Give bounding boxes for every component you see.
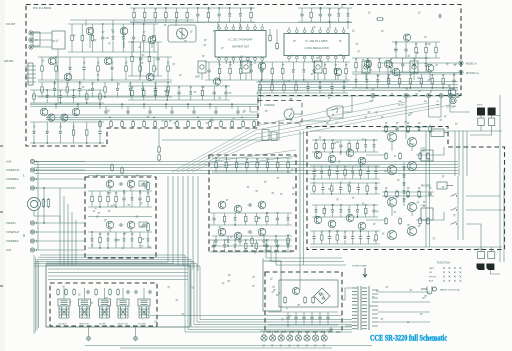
antenna attenuator xyxy=(33,32,40,46)
module feedthrough terminal xyxy=(448,94,452,98)
resistor xyxy=(366,61,369,69)
audio bus wire 5 xyxy=(34,173,458,175)
svg-text:FM ANT: FM ANT xyxy=(6,22,16,26)
wire xyxy=(102,24,104,36)
B+ FM bus wire xyxy=(258,87,458,89)
IF resistor xyxy=(165,120,168,128)
part value label xyxy=(258,218,261,219)
wire xyxy=(54,82,56,88)
wire xyxy=(153,57,155,64)
bus junction xyxy=(121,103,123,105)
part value label xyxy=(356,43,359,44)
junction xyxy=(407,130,408,131)
bus junction xyxy=(165,103,167,105)
wire xyxy=(338,8,340,14)
part value label xyxy=(88,90,91,91)
wire xyxy=(50,120,52,123)
speaker terminal D lug xyxy=(488,252,495,259)
wire xyxy=(356,214,358,218)
part value label xyxy=(262,95,265,96)
wire xyxy=(367,175,369,179)
output transistor xyxy=(407,226,416,235)
wire xyxy=(395,42,397,48)
wire xyxy=(260,330,330,332)
resistor xyxy=(239,67,242,75)
part value label xyxy=(206,122,209,123)
wire xyxy=(287,240,289,245)
part value label xyxy=(455,63,458,64)
speaker terminal C black xyxy=(477,264,485,271)
wire xyxy=(390,69,392,72)
resistor xyxy=(166,89,169,97)
wire xyxy=(327,312,329,316)
wire xyxy=(295,92,297,93)
wiring loop side xyxy=(36,259,38,330)
IF bias cluster top rail xyxy=(256,81,348,83)
tone amp transistor xyxy=(218,228,226,236)
part value label xyxy=(164,90,167,91)
wiring loop side xyxy=(35,257,37,332)
routed signal wire xyxy=(209,156,296,168)
wire xyxy=(268,311,338,313)
wire xyxy=(266,158,268,161)
resistor xyxy=(271,67,274,75)
part value label xyxy=(314,170,317,171)
value label xyxy=(102,32,105,33)
bus junction xyxy=(109,117,110,118)
wire xyxy=(490,270,500,274)
wire xyxy=(313,193,315,194)
junction xyxy=(208,7,209,8)
wire xyxy=(139,201,141,207)
capacitor xyxy=(260,69,263,74)
wire xyxy=(388,85,390,88)
wire xyxy=(366,154,386,156)
resistor xyxy=(66,85,69,93)
resistor xyxy=(304,296,307,304)
resistor xyxy=(415,46,418,54)
part value label xyxy=(311,74,314,75)
part value label xyxy=(339,41,342,42)
wire xyxy=(313,240,315,244)
value label xyxy=(240,65,243,66)
part value label xyxy=(336,199,339,200)
wire xyxy=(154,19,156,22)
wire xyxy=(313,175,315,179)
wire xyxy=(225,158,227,161)
wire xyxy=(310,8,312,11)
IF capacitor xyxy=(104,110,107,115)
wire xyxy=(115,191,117,195)
capacitor xyxy=(401,63,404,68)
part value label xyxy=(406,88,409,89)
part value label xyxy=(412,144,415,145)
wire xyxy=(255,250,257,252)
wire xyxy=(317,73,319,80)
part value label xyxy=(404,121,407,122)
wire xyxy=(131,42,133,55)
wire xyxy=(83,71,85,80)
wire xyxy=(377,84,379,89)
wire xyxy=(313,231,315,235)
wire xyxy=(202,97,204,100)
wire xyxy=(256,169,258,172)
B+ bus wire xyxy=(30,103,258,105)
headphone jack xyxy=(437,182,453,189)
capacitor xyxy=(394,48,397,53)
wire xyxy=(295,320,297,325)
wire xyxy=(340,191,342,194)
terminal label xyxy=(288,345,291,346)
preamp cluster bottom rail xyxy=(88,247,152,249)
junction xyxy=(331,193,332,194)
wire xyxy=(321,166,323,171)
wire xyxy=(46,263,173,265)
part value label xyxy=(264,181,267,182)
wire xyxy=(323,215,325,217)
wire xyxy=(263,331,265,335)
IF transformer can xyxy=(314,61,322,73)
bus tap wire xyxy=(165,104,167,109)
wire xyxy=(208,8,210,11)
value label xyxy=(250,65,253,66)
wire xyxy=(176,120,178,122)
wire xyxy=(480,126,482,132)
speaker relay xyxy=(421,208,433,220)
wire xyxy=(46,99,48,103)
right edge wire xyxy=(499,95,501,262)
diode xyxy=(234,245,237,248)
wire xyxy=(109,229,111,232)
junction xyxy=(324,139,325,140)
resistor xyxy=(147,195,150,203)
wire xyxy=(143,24,145,34)
wire xyxy=(147,243,149,249)
capacitor xyxy=(138,197,141,202)
wire xyxy=(462,176,464,240)
capacitor xyxy=(82,66,85,71)
part value label xyxy=(293,41,296,42)
wire xyxy=(147,191,149,195)
bus junction xyxy=(99,103,101,105)
wire xyxy=(343,59,345,62)
resistor xyxy=(435,46,438,54)
value label xyxy=(415,44,418,45)
tone control section border xyxy=(209,155,296,251)
value label xyxy=(365,205,368,206)
wire xyxy=(46,261,168,263)
wire xyxy=(276,213,278,217)
IC102 pin xyxy=(311,30,314,33)
rotary switch wafer FILTER xyxy=(99,299,111,318)
wire xyxy=(33,90,35,92)
junction xyxy=(385,126,386,127)
IC101 pin xyxy=(239,27,242,30)
svg-text:TAPE MON: TAPE MON xyxy=(79,323,89,326)
wire xyxy=(425,42,427,46)
resistor xyxy=(344,168,347,176)
diode xyxy=(315,210,318,213)
value label xyxy=(115,193,118,194)
wire xyxy=(198,120,200,122)
part value label xyxy=(384,171,387,172)
wire xyxy=(154,82,156,87)
wire xyxy=(375,175,377,179)
diode xyxy=(355,80,358,83)
wire xyxy=(176,19,178,22)
resistor xyxy=(57,288,60,295)
IF resistor xyxy=(198,120,201,128)
wire xyxy=(35,231,85,233)
diode xyxy=(377,80,380,83)
contact mark xyxy=(443,276,445,278)
diode xyxy=(287,218,290,221)
wire xyxy=(287,222,289,226)
resistor xyxy=(321,233,324,241)
wire xyxy=(366,74,368,80)
resistor xyxy=(334,67,337,75)
terminal label xyxy=(306,345,309,346)
junction xyxy=(272,79,273,80)
value label xyxy=(373,205,376,206)
resistor xyxy=(256,161,259,169)
terminal label xyxy=(314,345,317,346)
ceramic filter lead xyxy=(341,5,343,9)
wire xyxy=(352,240,354,244)
wire xyxy=(343,82,345,86)
junction xyxy=(227,245,228,246)
wire xyxy=(86,90,88,92)
signal bus wire xyxy=(46,116,258,118)
wiring loop xyxy=(37,259,352,327)
wire xyxy=(215,236,217,239)
wire xyxy=(413,67,415,72)
svg-text:FM: FM xyxy=(424,101,427,103)
value label xyxy=(323,140,326,141)
junction xyxy=(54,81,55,82)
wire xyxy=(396,130,398,132)
wire xyxy=(277,158,279,161)
svg-text:FILTER: FILTER xyxy=(99,324,106,326)
oscillator top cluster top rail xyxy=(298,7,352,9)
wire xyxy=(178,95,180,100)
stereo lamp xyxy=(450,97,456,103)
wire xyxy=(35,187,85,189)
chassis terminal xyxy=(270,335,276,341)
wire xyxy=(225,86,227,91)
wire xyxy=(81,42,83,52)
amp cluster top rail xyxy=(310,230,380,232)
wire xyxy=(215,106,217,110)
value label xyxy=(99,234,102,235)
wire xyxy=(148,42,150,55)
junction xyxy=(91,231,92,232)
wire xyxy=(254,60,256,64)
filter capacitor xyxy=(294,316,297,321)
wire xyxy=(102,40,104,52)
IC102 pin xyxy=(334,30,337,33)
capacitor xyxy=(265,244,268,249)
junction xyxy=(115,206,116,207)
value label xyxy=(315,140,318,141)
capacitor xyxy=(413,63,416,68)
part value label xyxy=(292,193,295,194)
wire xyxy=(360,177,362,179)
wire xyxy=(395,52,397,58)
wire xyxy=(261,24,263,27)
wire xyxy=(261,62,263,69)
transformer secondary xyxy=(372,290,378,326)
part value label xyxy=(162,120,165,121)
wire xyxy=(321,242,323,244)
value label xyxy=(154,9,157,10)
resistor xyxy=(167,85,170,93)
IC102 PLL MPX xyxy=(284,34,349,56)
wire xyxy=(99,232,101,236)
wire xyxy=(327,59,329,62)
AGC rail wire xyxy=(32,95,455,97)
scan mark xyxy=(0,146,3,286)
driver cluster top rail xyxy=(382,126,434,128)
wire xyxy=(387,68,389,80)
AM IF cluster bottom rail xyxy=(30,102,104,104)
bus wire xyxy=(48,275,188,277)
wire xyxy=(232,60,234,64)
wire xyxy=(251,235,253,238)
wire xyxy=(86,101,88,103)
wire xyxy=(35,161,85,163)
wire xyxy=(288,59,290,62)
wire xyxy=(255,213,257,215)
diode xyxy=(343,86,346,89)
wire xyxy=(117,92,119,97)
filter capacitor xyxy=(302,316,305,321)
wire xyxy=(176,8,178,11)
C-meter dashed box xyxy=(258,101,302,124)
coupling capacitor xyxy=(248,203,253,206)
wire xyxy=(375,231,377,233)
wire xyxy=(115,242,117,248)
contact mark xyxy=(460,271,462,273)
value label xyxy=(133,9,136,10)
svg-text:AUDIO: AUDIO xyxy=(398,104,405,107)
junction xyxy=(365,139,366,140)
junction xyxy=(331,92,332,93)
wire xyxy=(406,40,408,43)
junction xyxy=(99,247,100,248)
diode xyxy=(223,245,226,248)
part value label xyxy=(211,246,214,247)
diode xyxy=(59,131,62,134)
wire xyxy=(425,68,427,73)
wire xyxy=(272,331,274,335)
part value label xyxy=(381,30,384,31)
wire xyxy=(311,27,313,30)
wire xyxy=(348,214,350,218)
input bus wire xyxy=(37,162,39,251)
capacitor xyxy=(276,217,279,222)
junction xyxy=(332,204,333,205)
part value label xyxy=(339,54,342,55)
wire xyxy=(148,63,150,76)
part value label xyxy=(229,92,232,93)
part value label xyxy=(247,186,250,187)
capacitor xyxy=(306,85,309,90)
wire xyxy=(229,8,231,14)
wire xyxy=(46,122,48,131)
part value label xyxy=(375,112,378,113)
wire xyxy=(335,75,337,80)
junction xyxy=(442,87,443,88)
output transistor xyxy=(387,165,396,174)
part value label xyxy=(382,233,385,234)
wire xyxy=(332,205,334,210)
wire xyxy=(327,320,329,325)
resistor xyxy=(245,242,248,250)
wire xyxy=(288,27,290,30)
wire xyxy=(429,125,431,127)
IF resistor xyxy=(231,120,234,128)
part value label xyxy=(204,39,207,40)
capacitor xyxy=(212,217,215,222)
resistor xyxy=(375,233,378,241)
part value label xyxy=(210,119,213,120)
wire xyxy=(73,99,75,103)
speaker switch xyxy=(450,208,456,212)
wire xyxy=(139,73,141,80)
IC101 pin xyxy=(261,27,264,30)
bus junction xyxy=(65,117,66,118)
wire xyxy=(303,74,305,81)
junction xyxy=(287,171,288,172)
IC102 pin xyxy=(319,30,322,33)
output terminal xyxy=(87,337,91,341)
wire xyxy=(155,86,157,89)
power amp section border xyxy=(307,127,505,250)
wire xyxy=(343,90,345,93)
wire xyxy=(167,82,169,85)
terminal label xyxy=(280,345,283,346)
value label xyxy=(324,65,327,66)
wire xyxy=(193,106,195,110)
wire xyxy=(391,207,393,216)
wire xyxy=(411,147,413,151)
bus tap wire xyxy=(209,104,211,109)
wire xyxy=(139,57,141,64)
wire xyxy=(239,18,241,23)
svg-text:FUNCTION: FUNCTION xyxy=(437,262,450,265)
value label xyxy=(377,75,380,76)
value label xyxy=(356,205,359,206)
wire xyxy=(373,149,375,153)
part value label xyxy=(138,47,141,48)
resistor xyxy=(218,67,221,75)
FM antenna terminal xyxy=(29,38,33,42)
AM converter cluster top rail xyxy=(38,56,172,58)
tuning meter xyxy=(284,109,294,120)
wire xyxy=(375,183,377,187)
value label xyxy=(355,59,358,60)
capacitor xyxy=(312,170,315,175)
IF bias cluster bottom rail xyxy=(256,92,348,94)
wire xyxy=(187,120,189,122)
bias diode xyxy=(403,191,406,194)
wire xyxy=(197,17,199,22)
part value label xyxy=(195,76,198,77)
wire xyxy=(218,8,220,13)
part value label xyxy=(97,74,100,75)
wire xyxy=(97,73,99,80)
